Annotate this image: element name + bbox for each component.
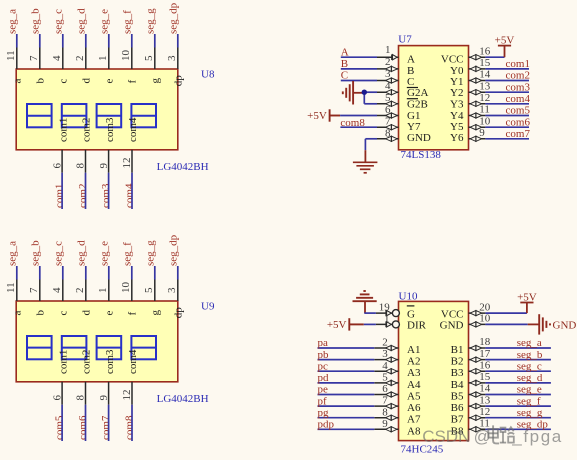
U7 pin 12 (Y3) — [450, 92, 490, 111]
wire net pg to U10 pin 8 — [318, 417, 375, 419]
wire seg_c to U8 pin 4 — [62, 34, 64, 48]
U7 pin 6 (G1) — [377, 104, 420, 122]
svg-text:2: 2 — [74, 56, 86, 62]
svg-text:com2: com2 — [81, 350, 93, 374]
svg-text:3: 3 — [166, 55, 178, 61]
net label pdp — [318, 419, 335, 431]
svg-text:G1: G1 — [407, 110, 420, 122]
svg-text:seg_a: seg_a — [6, 9, 18, 34]
wire net seg_dp from U10 pin 11 — [485, 428, 551, 430]
svg-text:Y5: Y5 — [450, 121, 464, 133]
svg-text:9: 9 — [382, 418, 388, 430]
svg-text:6: 6 — [51, 163, 63, 169]
net label seg_g — [144, 240, 156, 266]
U8 pin 2 (d) — [74, 48, 93, 84]
svg-text:Y3: Y3 — [450, 99, 464, 111]
svg-text:d: d — [81, 78, 93, 84]
svg-text:seg_g: seg_g — [517, 407, 543, 419]
U8 pin 8 (com2) — [75, 118, 93, 173]
wire com3 from U8 pin 9 — [108, 173, 110, 209]
net label pg — [318, 407, 330, 419]
net label seg_a at U10 — [517, 337, 542, 349]
svg-text:10: 10 — [120, 50, 132, 62]
wire net A to U7 pin 1 — [341, 56, 377, 58]
svg-text:16: 16 — [479, 45, 491, 57]
svg-text:B5: B5 — [451, 391, 464, 403]
net label pc — [318, 360, 329, 372]
net label seg_e — [98, 241, 110, 266]
svg-text:com2: com2 — [81, 118, 93, 142]
svg-text:pd: pd — [318, 372, 330, 384]
signal ground at U7 G2A/G2B — [343, 81, 353, 105]
wire seg_dp to U8 pin 3 — [177, 34, 179, 48]
svg-text:16: 16 — [479, 359, 491, 371]
wire net pa to U10 pin 2 — [318, 347, 375, 349]
svg-text:4: 4 — [51, 287, 63, 293]
svg-text:4: 4 — [51, 55, 63, 61]
net label seg_dp at U10 — [517, 419, 549, 431]
svg-text:seg_c: seg_c — [517, 360, 542, 372]
net label pd — [318, 372, 330, 384]
svg-text:com1: com1 — [54, 184, 66, 208]
designator U8 — [201, 68, 215, 80]
svg-text:12: 12 — [479, 92, 490, 104]
wire net pd to U10 pin 5 — [318, 382, 375, 384]
svg-text:c: c — [58, 79, 70, 84]
U7 pin 11 (Y4) — [450, 104, 490, 122]
svg-text:8: 8 — [75, 395, 87, 401]
svg-text:com5: com5 — [506, 105, 531, 117]
wire net seg_d from U10 pin 15 — [485, 382, 551, 384]
wire com2 from U8 pin 8 — [85, 173, 87, 209]
svg-text:2: 2 — [74, 288, 86, 294]
U9 pin 9 (com3) — [98, 349, 116, 405]
svg-text:20: 20 — [479, 301, 491, 313]
svg-text:5: 5 — [143, 55, 155, 61]
wire seg_d to U8 pin 2 — [85, 34, 87, 48]
svg-text:pb: pb — [318, 349, 330, 361]
U9 pin 10 (f) — [120, 280, 139, 316]
svg-text:seg_dp: seg_dp — [167, 234, 179, 266]
U10 pin 16 (B3) — [451, 359, 491, 379]
svg-text:B1: B1 — [451, 344, 464, 356]
svg-text:e: e — [104, 311, 116, 316]
U10 pin 11 (B8) — [451, 418, 490, 438]
net label seg_f at U10 — [517, 395, 541, 407]
net label seg_g — [144, 8, 156, 34]
value 74LS138 — [401, 149, 442, 161]
svg-text:com3: com3 — [100, 183, 112, 208]
power +5V to U7 pin 6 G1 — [307, 109, 340, 122]
svg-text:5: 5 — [385, 92, 391, 104]
svg-text:Y0: Y0 — [450, 65, 464, 77]
svg-text:seg_a: seg_a — [6, 241, 18, 266]
svg-text:pg: pg — [318, 407, 330, 419]
svg-text:+5V: +5V — [495, 34, 515, 46]
svg-text:9: 9 — [98, 395, 110, 401]
U10 pin 8 (A7) — [374, 406, 421, 425]
svg-text:A1: A1 — [407, 344, 420, 356]
svg-text:13: 13 — [479, 80, 491, 92]
wire seg_a to U9 pin 11 — [16, 266, 18, 280]
net label com3 — [100, 183, 112, 208]
power +5V to U10 pin 1 DIR — [327, 318, 364, 331]
svg-text:B: B — [341, 58, 348, 70]
svg-text:B: B — [407, 65, 414, 77]
svg-text:7: 7 — [28, 287, 40, 293]
svg-text:4: 4 — [385, 80, 391, 92]
svg-text:LG4042BH: LG4042BH — [157, 393, 209, 405]
svg-text:B4: B4 — [451, 379, 464, 391]
svg-text:11: 11 — [5, 50, 17, 61]
svg-text:+5V: +5V — [517, 291, 537, 303]
U8 pin 3 (dp) — [166, 48, 185, 87]
net label seg_f — [121, 10, 133, 34]
svg-text:2: 2 — [382, 337, 388, 349]
U9 digit symbol 4 — [131, 336, 156, 359]
svg-text:com6: com6 — [77, 415, 89, 440]
junction at U7 G2A — [362, 90, 367, 95]
svg-text:1: 1 — [97, 288, 109, 294]
U7 pin 13 (Y2) — [450, 80, 491, 99]
net label seg_b at U10 — [517, 349, 543, 361]
net label C — [341, 70, 348, 82]
svg-text:12: 12 — [121, 158, 133, 169]
svg-text:c: c — [58, 311, 70, 316]
svg-text:+5V: +5V — [327, 319, 347, 331]
U10 pin 19 (G enable) — [376, 302, 415, 321]
net label com5 — [54, 415, 66, 440]
svg-text:com5: com5 — [54, 415, 66, 440]
U8 pin 6 (com1) — [51, 118, 69, 173]
svg-text:Y2: Y2 — [450, 87, 463, 99]
U8 digit symbol 4 — [131, 104, 156, 127]
U9 digit symbol 1 — [27, 336, 52, 359]
U9 pin 4 (c) — [51, 280, 70, 316]
net label pa — [318, 337, 329, 349]
net label seg_b — [29, 240, 41, 266]
svg-text:com4: com4 — [124, 183, 136, 208]
net label seg_g at U10 — [517, 407, 543, 419]
net label seg_d — [75, 240, 87, 266]
svg-text:8: 8 — [385, 128, 391, 140]
net label seg_c at U10 — [517, 360, 542, 372]
U10 pin 14 (B5) — [451, 383, 491, 403]
net label pe — [318, 384, 329, 396]
svg-text:a: a — [12, 79, 24, 84]
svg-text:VCC: VCC — [441, 308, 464, 320]
U8 pin 5 (g) — [143, 48, 162, 84]
svg-text:10: 10 — [479, 115, 491, 127]
svg-text:CSDN: CSDN — [422, 427, 470, 446]
U9 pin 7 (b) — [28, 280, 47, 316]
U8 pin 4 (c) — [51, 48, 70, 84]
svg-text:Y7: Y7 — [407, 121, 421, 133]
svg-text:seg_d: seg_d — [75, 240, 87, 266]
svg-text:seg_f: seg_f — [121, 242, 133, 266]
svg-text:com4: com4 — [506, 93, 531, 105]
svg-text:B6: B6 — [451, 402, 464, 414]
svg-text:C: C — [341, 70, 348, 82]
U7 pin 4 (G2A) — [377, 80, 428, 99]
svg-text:A4: A4 — [407, 379, 421, 391]
U7 pin 2 (B) — [377, 56, 414, 77]
svg-text:Y4: Y4 — [450, 110, 464, 122]
svg-text:com6: com6 — [506, 116, 531, 128]
U9 pin 5 (g) — [143, 280, 162, 316]
wire com8 from U9 pin 12 — [131, 405, 133, 441]
svg-text:com3: com3 — [104, 117, 116, 142]
wire net com4 from U7 pin 12 — [485, 103, 529, 105]
U7 pin 15 (Y0) — [450, 57, 491, 77]
wire net B to U7 pin 2 — [341, 68, 377, 70]
wire seg_e to U8 pin 1 — [108, 34, 110, 48]
U7 pin 5 (G2B) — [377, 92, 428, 111]
svg-text:_fpga: _fpga — [511, 427, 563, 446]
svg-text:+5V: +5V — [307, 110, 327, 122]
svg-text:A3: A3 — [407, 367, 421, 379]
U10 pin 20 (VCC) — [441, 301, 491, 320]
wire seg_b to U8 pin 7 — [39, 34, 41, 48]
wire seg_b to U9 pin 7 — [39, 266, 41, 280]
U10 pin 5 (A4) — [374, 372, 421, 391]
svg-text:seg_a: seg_a — [517, 337, 542, 349]
wire net seg_b from U10 pin 17 — [485, 359, 551, 361]
wire U7 enable net G2A-G2B — [354, 92, 377, 104]
U10 pin 3 (A2) — [374, 348, 420, 367]
svg-text:12: 12 — [121, 390, 133, 401]
wire net C to U7 pin 3 — [341, 80, 377, 82]
svg-text:com3: com3 — [506, 81, 531, 93]
U8 digit symbol 2 — [62, 104, 87, 127]
net label pb — [318, 349, 330, 361]
U10 pin 6 (A5) — [374, 383, 421, 402]
net label seg_dp — [167, 2, 179, 34]
svg-text:A: A — [341, 46, 349, 58]
svg-text:9: 9 — [98, 163, 110, 169]
U10 pin 12 (B7) — [451, 406, 491, 426]
svg-text:seg_e: seg_e — [98, 241, 110, 266]
U7 pin 1 (A) — [377, 44, 415, 66]
wire +5V to U7 VCC — [485, 56, 504, 58]
svg-text:A2: A2 — [407, 356, 420, 368]
svg-text:com1: com1 — [506, 58, 530, 70]
wire +5V to U10 DIR — [364, 323, 376, 325]
svg-text:com7: com7 — [506, 128, 531, 140]
wire com5 from U9 pin 6 — [61, 405, 63, 441]
svg-text:f: f — [127, 80, 139, 84]
svg-text:A7: A7 — [407, 414, 421, 426]
svg-text:3: 3 — [385, 68, 391, 80]
svg-text:A6: A6 — [407, 402, 421, 414]
svg-text:seg_b: seg_b — [517, 349, 543, 361]
U9 pin 1 (e) — [97, 280, 116, 316]
net label B — [341, 58, 348, 70]
svg-text:11: 11 — [5, 282, 17, 293]
net label seg_a — [6, 9, 18, 34]
wire seg_d to U9 pin 2 — [85, 266, 87, 280]
wire net seg_f from U10 pin 13 — [485, 405, 551, 407]
net label seg_c — [52, 241, 64, 266]
wire net com6 from U7 pin 10 — [485, 126, 529, 128]
svg-text:5: 5 — [382, 372, 388, 384]
wire seg_g to U9 pin 5 — [154, 266, 156, 280]
wire net pe to U10 pin 6 — [318, 394, 375, 396]
svg-text:com4: com4 — [127, 349, 139, 374]
U8 pin 9 (com3) — [98, 117, 116, 173]
svg-text:seg_f: seg_f — [517, 395, 541, 407]
net label seg_a — [6, 241, 18, 266]
svg-text:com8: com8 — [124, 415, 136, 440]
wire seg_c to U9 pin 4 — [62, 266, 64, 280]
wire U7 GND to ground — [365, 139, 377, 150]
U10 pin 4 (A3) — [374, 360, 421, 379]
wire net pf to U10 pin 7 — [318, 405, 375, 407]
svg-text:GND: GND — [407, 132, 431, 144]
svg-text:6: 6 — [51, 395, 63, 401]
svg-text:com2: com2 — [77, 184, 89, 208]
wire net seg_e from U10 pin 14 — [485, 394, 551, 396]
svg-text:GND: GND — [440, 320, 464, 332]
svg-text:seg_d: seg_d — [75, 8, 87, 34]
net label seg_e at U10 — [517, 384, 542, 396]
svg-text:2: 2 — [385, 56, 391, 68]
net label com8 — [124, 415, 136, 440]
net label com3 at U7 — [506, 81, 531, 93]
svg-text:b: b — [35, 78, 47, 84]
svg-text:seg_b: seg_b — [29, 8, 41, 34]
svg-text:7: 7 — [28, 55, 40, 61]
svg-text:f: f — [127, 312, 139, 316]
net label com8 at U7 — [340, 117, 365, 129]
svg-text:15: 15 — [479, 57, 491, 69]
U10 pin 7 (A6) — [374, 395, 421, 414]
U10 pin 15 (B4) — [451, 371, 491, 391]
svg-text:seg_e: seg_e — [517, 384, 542, 396]
U7 pin 16 (VCC) — [441, 45, 491, 65]
svg-text:Y6: Y6 — [450, 132, 464, 144]
net label com6 at U7 — [506, 116, 531, 128]
wire net seg_c from U10 pin 16 — [485, 370, 551, 372]
svg-text:VCC: VCC — [441, 54, 464, 66]
svg-text:G: G — [407, 308, 415, 320]
svg-text:seg_c: seg_c — [52, 241, 64, 266]
svg-text:C: C — [407, 76, 414, 88]
power ground GND at U10 pin 10 — [528, 314, 577, 334]
U9 pin 8 (com2) — [75, 350, 93, 405]
svg-text:4: 4 — [382, 360, 388, 372]
U7 pin 3 (C) — [377, 68, 414, 88]
svg-text:14: 14 — [479, 69, 491, 81]
wire ground to U10 pin 19 — [364, 301, 376, 313]
svg-text:12: 12 — [479, 406, 490, 418]
svg-text:A: A — [407, 54, 415, 66]
U10 pin 18 (B1) — [451, 336, 491, 356]
svg-text:dp: dp — [173, 307, 185, 319]
svg-text:19: 19 — [379, 302, 391, 314]
U8 digit symbol 1 — [27, 104, 52, 127]
svg-text:seg_f: seg_f — [121, 10, 133, 34]
U10 pin 10 (GND) — [440, 313, 491, 332]
wire net com1 from U7 pin 15 — [485, 68, 529, 70]
U8 pin 1 (e) — [97, 48, 116, 84]
power +5V at U10 pin 20 — [517, 291, 537, 313]
display U9 body LG4042BH — [16, 301, 178, 382]
net label seg_d — [75, 8, 87, 34]
svg-text:pa: pa — [318, 337, 329, 349]
svg-text:b: b — [35, 310, 47, 316]
net label seg_e — [98, 9, 110, 34]
svg-text:LG4042BH: LG4042BH — [157, 161, 209, 173]
svg-text:U9: U9 — [201, 300, 215, 312]
U9 pin 12 (com4) — [121, 349, 139, 405]
svg-text:5: 5 — [143, 287, 155, 293]
svg-text:6: 6 — [385, 104, 391, 116]
U10 pin 1 (DIR) — [376, 313, 427, 332]
svg-text:seg_dp: seg_dp — [167, 2, 179, 34]
svg-text:8: 8 — [75, 163, 87, 169]
net label A — [341, 46, 349, 58]
value LG4042BH of U8 — [157, 161, 209, 173]
IC U7 74LS138 body — [399, 46, 469, 150]
svg-text:com2: com2 — [506, 70, 530, 82]
U8 pin 7 (b) — [28, 48, 47, 84]
U10 pin 9 (A8) — [374, 418, 421, 437]
U8 pin 11 (a) — [5, 48, 24, 84]
net label com2 — [77, 184, 89, 208]
U10 pin 17 (B2) — [451, 348, 491, 368]
wire seg_f to U8 pin 10 — [131, 34, 133, 48]
wire seg_f to U9 pin 10 — [131, 266, 133, 280]
wire net com3 from U7 pin 13 — [485, 91, 529, 93]
wire com7 from U9 pin 9 — [108, 405, 110, 441]
svg-text:pe: pe — [318, 384, 329, 396]
svg-text:8: 8 — [382, 406, 388, 418]
wire seg_dp to U9 pin 3 — [177, 266, 179, 280]
wire net com7 from U7 pin 9 — [485, 138, 529, 140]
U9 pin 2 (d) — [74, 280, 93, 316]
svg-text:com1: com1 — [57, 350, 69, 374]
wire +5V to U7 G1 — [340, 115, 377, 117]
wire net com8 to U7 pin 7 — [340, 126, 377, 128]
svg-text:10: 10 — [120, 282, 132, 294]
U7 pin 10 (Y5) — [450, 115, 491, 133]
svg-text:15: 15 — [479, 371, 491, 383]
wire net seg_g from U10 pin 12 — [485, 417, 551, 419]
svg-text:seg_g: seg_g — [144, 240, 156, 266]
net label seg_d at U10 — [517, 372, 543, 384]
svg-text:U10: U10 — [399, 291, 418, 303]
wire GND net from U10 pin 10 — [485, 323, 527, 325]
net label com6 — [77, 415, 89, 440]
svg-text:G2A: G2A — [407, 87, 428, 99]
U8 pin 12 (com4) — [121, 117, 139, 173]
svg-text:com3: com3 — [104, 349, 116, 374]
svg-text:U7: U7 — [398, 34, 412, 46]
wire com6 from U9 pin 8 — [85, 405, 87, 441]
net label com4 at U7 — [506, 93, 531, 105]
net label com5 at U7 — [506, 105, 531, 117]
U7 pin 9 (Y6) — [450, 127, 485, 144]
svg-text:seg_g: seg_g — [144, 8, 156, 34]
U7 pin 7 (Y7) — [377, 116, 421, 133]
svg-text:seg_c: seg_c — [52, 9, 64, 34]
svg-text:com7: com7 — [100, 415, 112, 440]
IC U10 74HC245 body — [399, 301, 469, 440]
svg-text:18: 18 — [479, 336, 491, 348]
svg-text:11: 11 — [479, 104, 490, 116]
display U8 body LG4042BH — [16, 69, 178, 150]
